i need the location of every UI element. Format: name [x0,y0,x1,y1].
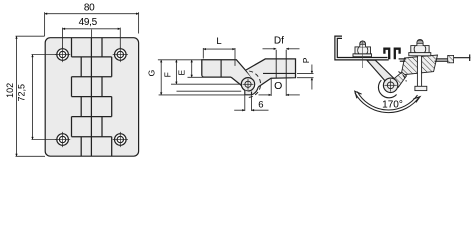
svg-text:72,5: 72,5 [16,84,26,102]
dim 102 [16,36,46,156]
pivot pin (right view) [384,79,396,91]
left panel hem hook [384,49,389,60]
left bolt nut [355,47,371,54]
right cover line [454,54,471,61]
svg-text:80: 80 [84,3,95,14]
knuckle verticals even bands [81,57,112,156]
right bolt washer [409,53,431,56]
screw hole top-left [55,47,70,62]
pin bore lines [276,50,286,78]
profile wall section [448,55,454,62]
swing dashed arc [247,71,261,97]
right leaf step line [263,72,296,74]
right bolt nut [411,46,429,53]
dim 80 [45,12,139,36]
left bolt stud [360,41,366,47]
left bolt axis [362,40,364,68]
swing dashes (right view) [398,72,406,82]
svg-text:G: G [146,70,156,77]
dim F [171,60,241,91]
left leaf body [202,60,253,86]
leaf bend edge [220,60,222,77]
svg-text:L: L [216,36,221,47]
svg-text:102: 102 [5,83,15,98]
dim E [188,60,204,78]
svg-text:F: F [162,72,172,77]
svg-text:O: O [274,80,282,92]
170 arc outer [355,93,420,113]
left bolt washer [353,54,372,57]
170 arc inner [357,92,417,110]
dim G [158,60,245,95]
right sheet hem hook [395,49,400,60]
pin hole [243,79,254,90]
svg-text:P: P [301,57,311,63]
plate body [45,38,138,157]
hinge center joint line [90,38,92,157]
arc arrowhead right [413,97,420,103]
svg-text:E: E [176,70,186,76]
right bolt stud [417,39,423,45]
left sheet panel [335,36,389,60]
dim O [259,78,300,96]
dim L [203,48,235,66]
svg-text:170°: 170° [382,100,403,111]
screw hole bottom-left [55,132,70,147]
hinge knuckle (right view) [383,78,397,92]
knuckle band boundary lines [72,57,112,137]
right leaf body [246,59,296,87]
dim 6 [234,96,268,111]
right sheet panel [399,59,448,61]
arc arrowhead left [355,91,362,98]
knuckle wrap tab [245,87,258,95]
hinge right leaf neck hatched [392,72,406,87]
screw hole top-right [113,47,128,62]
svg-text:Df: Df [274,36,284,47]
screw hole bottom-right [113,132,128,147]
bolt channel [418,55,421,86]
dim P [297,65,314,90]
dim 49,5 [63,28,121,48]
knuckle verticals odd bands [72,38,103,137]
hinge left leaf (right view) [367,60,394,84]
dim 72,5 [32,55,57,140]
knuckle wrap ring [378,80,396,98]
right bolt shaft [415,56,427,91]
svg-text:6: 6 [258,99,263,110]
dim Df [263,48,300,50]
svg-text:49,5: 49,5 [79,17,98,28]
hinge right leaf plate hatched [401,55,437,75]
knuckle barrel [241,78,254,91]
